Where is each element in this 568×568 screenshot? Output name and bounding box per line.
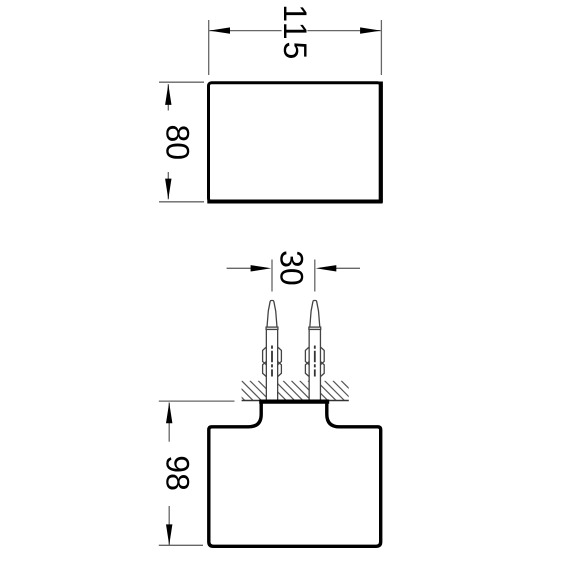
dimension 98: dimension line upper segment [168,403,170,442]
right screw: right wing lower [320,362,324,377]
dimension 30: dimension line left segment [227,267,252,269]
dimension 80: bottom arrowhead [165,179,171,200]
dimension 30: dimension line right segment [336,267,360,269]
dimension 115: right arrowhead [360,27,381,33]
bottom view: body outline [209,402,381,547]
right screw: body shaft [309,329,320,401]
dimension 80: top extension line [159,81,204,83]
wall surface line [242,400,349,402]
bottom view: wall hatching [225,381,361,401]
dimension 80: bottom extension line [159,201,204,203]
bottom view: neck top thick line [259,400,329,404]
dimension 30: right arrowhead (pointing left) [316,265,337,271]
svg-text:30: 30 [274,250,310,286]
dimension 30: right extension line [314,260,316,292]
dimension 98: top arrowhead [166,403,172,424]
left screw: left wing lower [263,362,267,377]
svg-text:80: 80 [160,125,196,161]
right screw: right wing upper [320,347,324,365]
dimension 115: left arrowhead [209,27,230,33]
dimension 98: dimension line lower segment [168,506,170,545]
right screw anchor [305,301,324,402]
dimension 115: left extension line [208,20,210,75]
svg-text:98: 98 [160,455,196,491]
left screw: center thread line [271,346,273,377]
dimension 115: dimension line left segment [209,30,281,32]
left screw: right wing upper [278,347,282,365]
dimension 115: dimension line right segment [307,30,380,32]
right screw: center thread line [314,346,316,377]
dimension 80: dimension line lower segment [167,172,169,199]
dimension 30: left arrowhead (pointing right) [251,265,272,271]
svg-text:115: 115 [277,4,313,61]
left screw: right wing lower [278,362,282,377]
left screw: nose cone [267,301,277,328]
left screw: left wing upper [263,347,267,365]
dimension 30: left extension line [271,260,273,292]
right screw: collar [309,327,321,329]
right screw: nose cone [310,301,320,328]
left screw: collar [266,327,278,329]
right screw: left wing upper [305,347,309,365]
dimension 98: bottom extension line [159,544,203,546]
dimension 98: top extension line [159,400,235,402]
left screw anchor [263,301,282,402]
dimension 98: bottom arrowhead [166,524,172,545]
dimension 80: dimension line upper segment [167,84,169,110]
left screw: body shaft [266,329,277,401]
top view: rectangle outline [207,82,382,203]
dimension 80: top arrowhead [165,84,171,105]
dimension 115: right extension line [380,20,382,75]
right screw: left wing lower [305,362,309,377]
